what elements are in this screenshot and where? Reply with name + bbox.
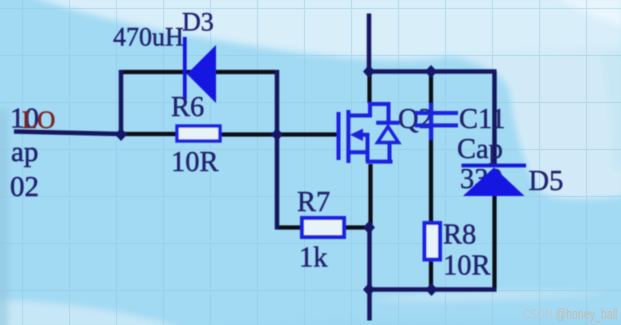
svg-text:10R: 10R — [171, 147, 219, 178]
svg-text:10R: 10R — [443, 251, 491, 282]
svg-text:R7: R7 — [297, 187, 330, 218]
svg-text:R8: R8 — [443, 220, 476, 251]
svg-text:C11: C11 — [459, 104, 505, 135]
svg-text:470uH: 470uH — [113, 23, 184, 52]
svg-text:Q2: Q2 — [398, 104, 433, 135]
svg-text:D3: D3 — [182, 8, 214, 37]
svg-text:CSDN @honey_ball: CSDN @honey_ball — [523, 306, 618, 322]
svg-text:ap: ap — [11, 136, 38, 168]
svg-text:1k: 1k — [299, 243, 328, 274]
svg-text:Cap: Cap — [457, 134, 503, 165]
svg-text:D5: D5 — [529, 166, 564, 197]
svg-text:02: 02 — [10, 171, 39, 203]
svg-text:R6: R6 — [171, 92, 204, 123]
svg-text:LO: LO — [22, 107, 55, 134]
